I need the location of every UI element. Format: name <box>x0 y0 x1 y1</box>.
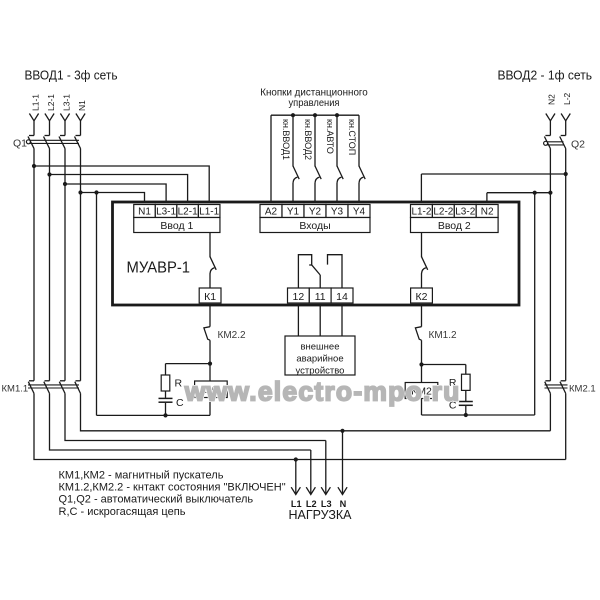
svg-text:Q1: Q1 <box>13 138 27 150</box>
load arrow N <box>338 487 347 494</box>
junction snubber tap right <box>419 362 423 366</box>
KM1.1 linkage <box>28 385 79 388</box>
wire KM1.1 pole1 down and L1 load bus <box>34 393 566 459</box>
svg-text:N1: N1 <box>138 207 151 218</box>
wire N1 bypass down to coil rail <box>96 193 98 416</box>
svg-text:L2-2: L2-2 <box>433 207 453 218</box>
wire snubber top rail (left) <box>166 363 211 365</box>
push button кн.АВТО <box>337 115 343 205</box>
svg-text:ВВОД1 - 3ф сеть: ВВОД1 - 3ф сеть <box>25 68 118 83</box>
contactor coil KM2 <box>405 383 438 399</box>
terminal 12 <box>288 288 310 303</box>
junction N1 bypass <box>94 190 98 194</box>
wire L-2 arrow to Q2 <box>565 121 567 136</box>
circuit breaker Q1 pole 3 <box>59 136 65 149</box>
svg-text:Кнопки дистанционного: Кнопки дистанционного <box>260 88 368 99</box>
wire load N down <box>342 431 344 495</box>
junction L1 load tap <box>294 457 298 461</box>
wire feed N1 to terminal <box>81 193 145 206</box>
terminal N1 <box>134 205 156 218</box>
wire KM1.1 pole3 down and L3 load bus <box>65 393 326 440</box>
svg-text:Q1,Q2 - автоматический выключа: Q1,Q2 - автоматический выключатель <box>59 494 254 506</box>
svg-text:МУАВР-1: МУАВР-1 <box>127 260 191 277</box>
contactor contact KM2.1 pole 2 <box>560 381 566 394</box>
load arrow L3 <box>321 487 330 494</box>
terminal Y3 <box>326 205 348 218</box>
input arrow L-2 <box>561 114 570 121</box>
wire R to C <box>165 391 167 398</box>
svg-text:ВВОД2 - 1ф сеть: ВВОД2 - 1ф сеть <box>498 68 593 83</box>
wire Q1 pole x=49.5 down to KM1.1 <box>49 149 51 381</box>
junction C bottom right <box>464 413 468 417</box>
svg-text:12: 12 <box>293 291 305 303</box>
junction N2 feed <box>548 191 552 195</box>
input arrow L1-1 <box>29 114 38 121</box>
svg-text:N2: N2 <box>547 94 557 105</box>
wire to resistor R right <box>465 365 467 375</box>
svg-text:КМ1.2: КМ1.2 <box>429 330 457 341</box>
resistor R (right snubber) <box>462 374 471 390</box>
relay contact K2 (internal) <box>422 233 428 289</box>
wire feed L1-2 terminal from L-2 <box>421 174 565 205</box>
wire N2 arrow to Q2 <box>549 121 551 136</box>
circuit breaker Q2 pole 2 <box>560 136 566 149</box>
Q1 mechanical linkage with actuator circle <box>26 140 79 144</box>
wire KM2.1 pole2 down to L1 bus <box>565 393 567 459</box>
svg-text:N1: N1 <box>77 100 87 111</box>
svg-text:Ввод 1: Ввод 1 <box>160 220 193 232</box>
wire Q1 pole x=65 down to KM1.1 <box>64 149 66 381</box>
svg-text:КМ2.2: КМ2.2 <box>218 330 246 341</box>
svg-text:кн.СТОП: кн.СТОП <box>347 119 357 155</box>
input arrow L2-1 <box>45 114 54 121</box>
wire L2-1 arrow to Q1 <box>49 121 51 136</box>
wire L1-1 arrow to Q1 <box>33 121 35 136</box>
svg-text:L2-1: L2-1 <box>46 94 56 111</box>
NC contact KM1.2 (status contact) <box>415 327 421 341</box>
load arrow L2 <box>306 487 315 494</box>
wire K1 to KM2.2 contact <box>209 305 211 327</box>
svg-text:L3-2: L3-2 <box>455 207 475 218</box>
load arrow L1 <box>291 487 300 494</box>
wire coil KM1 to bottom rail <box>209 398 211 416</box>
circuit breaker Q1 (4-pole) pole 1 <box>28 136 34 149</box>
wire KM1.2 to coil KM2 <box>421 340 423 382</box>
junction C bottom <box>163 413 167 417</box>
terminal group Ввод 2 <box>411 205 499 233</box>
contactor coil KM1 <box>195 381 228 398</box>
NC contact KM2.2 (status contact) <box>204 327 210 341</box>
wire feed L3-1 to terminal <box>65 184 166 205</box>
contactor contact KM2.1 pole 1 <box>545 381 551 394</box>
svg-text:кн.ВВОД1: кн.ВВОД1 <box>281 119 291 160</box>
terminal L1-2 <box>411 205 433 218</box>
svg-text:www.electro-mpo.ru: www.electro-mpo.ru <box>184 377 460 407</box>
svg-text:К1: К1 <box>204 291 216 303</box>
svg-text:L1-2: L1-2 <box>411 207 431 218</box>
wire to resistor R <box>165 364 167 375</box>
junction L-2 feed <box>564 172 568 176</box>
wire R to C right <box>465 390 467 401</box>
terminal Y2 <box>304 205 326 218</box>
svg-text:R: R <box>175 378 183 390</box>
junction button bus <box>291 113 295 117</box>
wire N2 bypass down to coil rail <box>534 193 536 415</box>
group box Ввод 2 <box>411 218 499 233</box>
terminal L1-1 <box>198 205 220 218</box>
terminal L2-2 <box>432 205 454 218</box>
circuit breaker Q2 (2-pole) pole 1 <box>544 136 550 149</box>
junction N2 bypass <box>533 191 537 195</box>
caption: Кнопки дистанционного управления (remote control buttons) <box>260 88 368 110</box>
terminal N2 <box>476 205 498 218</box>
terminal 11 <box>309 288 331 303</box>
circuit breaker Q1 pole 2 <box>44 136 50 149</box>
terminal K2 <box>411 288 433 303</box>
svg-text:Y1: Y1 <box>287 207 300 218</box>
svg-text:14: 14 <box>336 291 348 303</box>
svg-text:Y3: Y3 <box>331 207 344 218</box>
svg-text:внешнее: внешнее <box>300 342 339 353</box>
terminal Y1 <box>282 205 304 218</box>
terminal K1 <box>199 288 221 303</box>
contactor contact KM1.1 pole 3 <box>59 381 65 394</box>
junction button bus <box>313 113 317 117</box>
push button кн.ВВОД2 <box>315 115 321 205</box>
svg-text:L3-1: L3-1 <box>61 94 71 111</box>
wire KM1.1 pole4 down and N load bus <box>81 393 551 430</box>
resistor R (spark suppression) <box>161 375 170 391</box>
circuit breaker Q1 pole 4 <box>75 136 81 149</box>
svg-text:Входы: Входы <box>299 220 330 232</box>
wire feed L2-1 to terminal <box>50 175 188 206</box>
svg-text:Ввод 2: Ввод 2 <box>438 220 471 232</box>
wire Q1 pole x=80.5 down to KM1.1 <box>80 149 82 381</box>
input arrow N1 <box>76 114 85 121</box>
wire terminal 12 to external device <box>297 305 299 336</box>
group box Ввод 1 <box>134 218 220 233</box>
terminal group Входы <box>260 205 370 233</box>
svg-text:Y2: Y2 <box>309 207 322 218</box>
terminal L3-1 <box>155 205 177 218</box>
contactor contact KM1.1 pole 4 <box>75 381 81 394</box>
terminal Y4 <box>348 205 370 218</box>
svg-text:управления: управления <box>289 98 340 109</box>
svg-text:C: C <box>176 397 184 409</box>
wire coil KM2 to bottom rail <box>421 399 423 416</box>
svg-text:L1-1: L1-1 <box>199 207 219 218</box>
capacitor C (spark suppression) <box>159 398 173 402</box>
wire Q1 pole x=34 down to KM1.1 <box>33 149 35 381</box>
wire load L3 down <box>325 441 327 495</box>
push button кн.ВВОД1 <box>293 115 299 205</box>
wire Q2 L-2 down to KM2.1 <box>565 149 567 381</box>
device МУАВР-1 enclosure <box>113 202 520 305</box>
svg-text:кн.АВТО: кн.АВТО <box>325 119 335 154</box>
terminal A2 <box>260 205 282 218</box>
external alarm device box (внешнее аварийное устройство) <box>285 336 355 377</box>
junction N load tap <box>340 429 344 433</box>
junction snubber tap <box>208 362 212 366</box>
svg-text:КМ1.1: КМ1.1 <box>2 384 29 395</box>
wire N1 arrow to Q1 <box>80 121 82 136</box>
svg-text:аварийное: аварийное <box>296 354 343 365</box>
wire terminal 11 to external device <box>319 305 321 336</box>
wire C to bottom rail right <box>465 406 467 415</box>
terminal L2-1 <box>177 205 199 218</box>
junction <box>63 182 67 186</box>
wire load L2 down <box>310 450 312 495</box>
Q2 mechanical linkage with actuator circle <box>544 141 564 145</box>
svg-text:Y4: Y4 <box>353 207 366 218</box>
wire terminal 14 to external device <box>341 305 343 336</box>
svg-text:A2: A2 <box>265 207 278 218</box>
KM2.1 linkage <box>545 385 568 388</box>
input arrow L3-1 <box>60 114 69 121</box>
svg-text:L-2: L-2 <box>562 92 572 105</box>
junction button bus <box>335 113 339 117</box>
svg-text:N2: N2 <box>481 207 494 218</box>
wire C to bottom rail <box>165 403 167 416</box>
wire snubber top rail (right) <box>422 364 466 366</box>
contactor contact KM1.1 pole 2 <box>44 381 50 394</box>
wire feed L1-1 to terminal (horizontal+stub) <box>34 166 209 205</box>
svg-text:11: 11 <box>315 291 326 303</box>
input arrow N2 <box>546 114 555 121</box>
svg-text:R,C - искрогасящая цепь: R,C - искрогасящая цепь <box>59 506 186 518</box>
wire feed N2 terminal <box>487 193 551 205</box>
wire KM1.1 pole2 down and L2 load bus <box>50 393 311 450</box>
svg-text:КМ2.1: КМ2.1 <box>569 384 596 395</box>
capacitor C (right snubber) <box>459 402 473 406</box>
svg-text:Q2: Q2 <box>571 139 585 151</box>
push button кн.СТОП <box>359 115 365 205</box>
contactor contact KM1.1 pole 1 <box>28 381 34 394</box>
terminal group Ввод 1 <box>134 205 220 233</box>
terminal 14 <box>331 288 353 303</box>
wire snubber bottom rail (right) <box>422 414 535 416</box>
wire Q2 N2 down to KM2.1 <box>549 149 551 381</box>
svg-text:L1-1: L1-1 <box>30 94 40 111</box>
relay contact K1 (internal) <box>210 233 216 289</box>
terminal L3-2 <box>454 205 476 218</box>
svg-text:К2: К2 <box>416 291 428 303</box>
svg-text:кн.ВВОД2: кн.ВВОД2 <box>303 119 313 160</box>
wire A2 common down to terminal A2 <box>270 115 272 205</box>
relay changeover contact 11-12-14 (internal) <box>298 255 342 288</box>
svg-text:L3-1: L3-1 <box>156 207 176 218</box>
svg-text:устройство: устройство <box>296 366 345 377</box>
svg-text:L2-1: L2-1 <box>178 207 198 218</box>
junction <box>32 164 36 168</box>
group box Входы <box>260 218 370 233</box>
svg-text:НАГРУЗКА: НАГРУЗКА <box>288 508 352 522</box>
wire K2 to KM1.2 contact <box>421 305 423 327</box>
wire load L1 down <box>295 460 297 495</box>
wire snubber bottom rail (left) <box>97 414 211 416</box>
wire KM2.1 pole1 down to N bus <box>549 393 551 430</box>
wire KM2.2 to coil KM1 <box>209 340 211 381</box>
wire L3-1 arrow to Q1 <box>64 121 66 136</box>
junction <box>78 190 82 194</box>
wire button bus <box>271 114 359 116</box>
junction <box>47 172 51 176</box>
watermark www.electro-mpo.ru <box>184 377 460 407</box>
svg-text:КМ1.2,КМ2.2 - кнтакт состояния: КМ1.2,КМ2.2 - кнтакт состояния "ВКЛЮЧЕН" <box>59 482 286 494</box>
svg-text:КМ1,КМ2 - магнитный пускатель: КМ1,КМ2 - магнитный пускатель <box>59 469 224 481</box>
